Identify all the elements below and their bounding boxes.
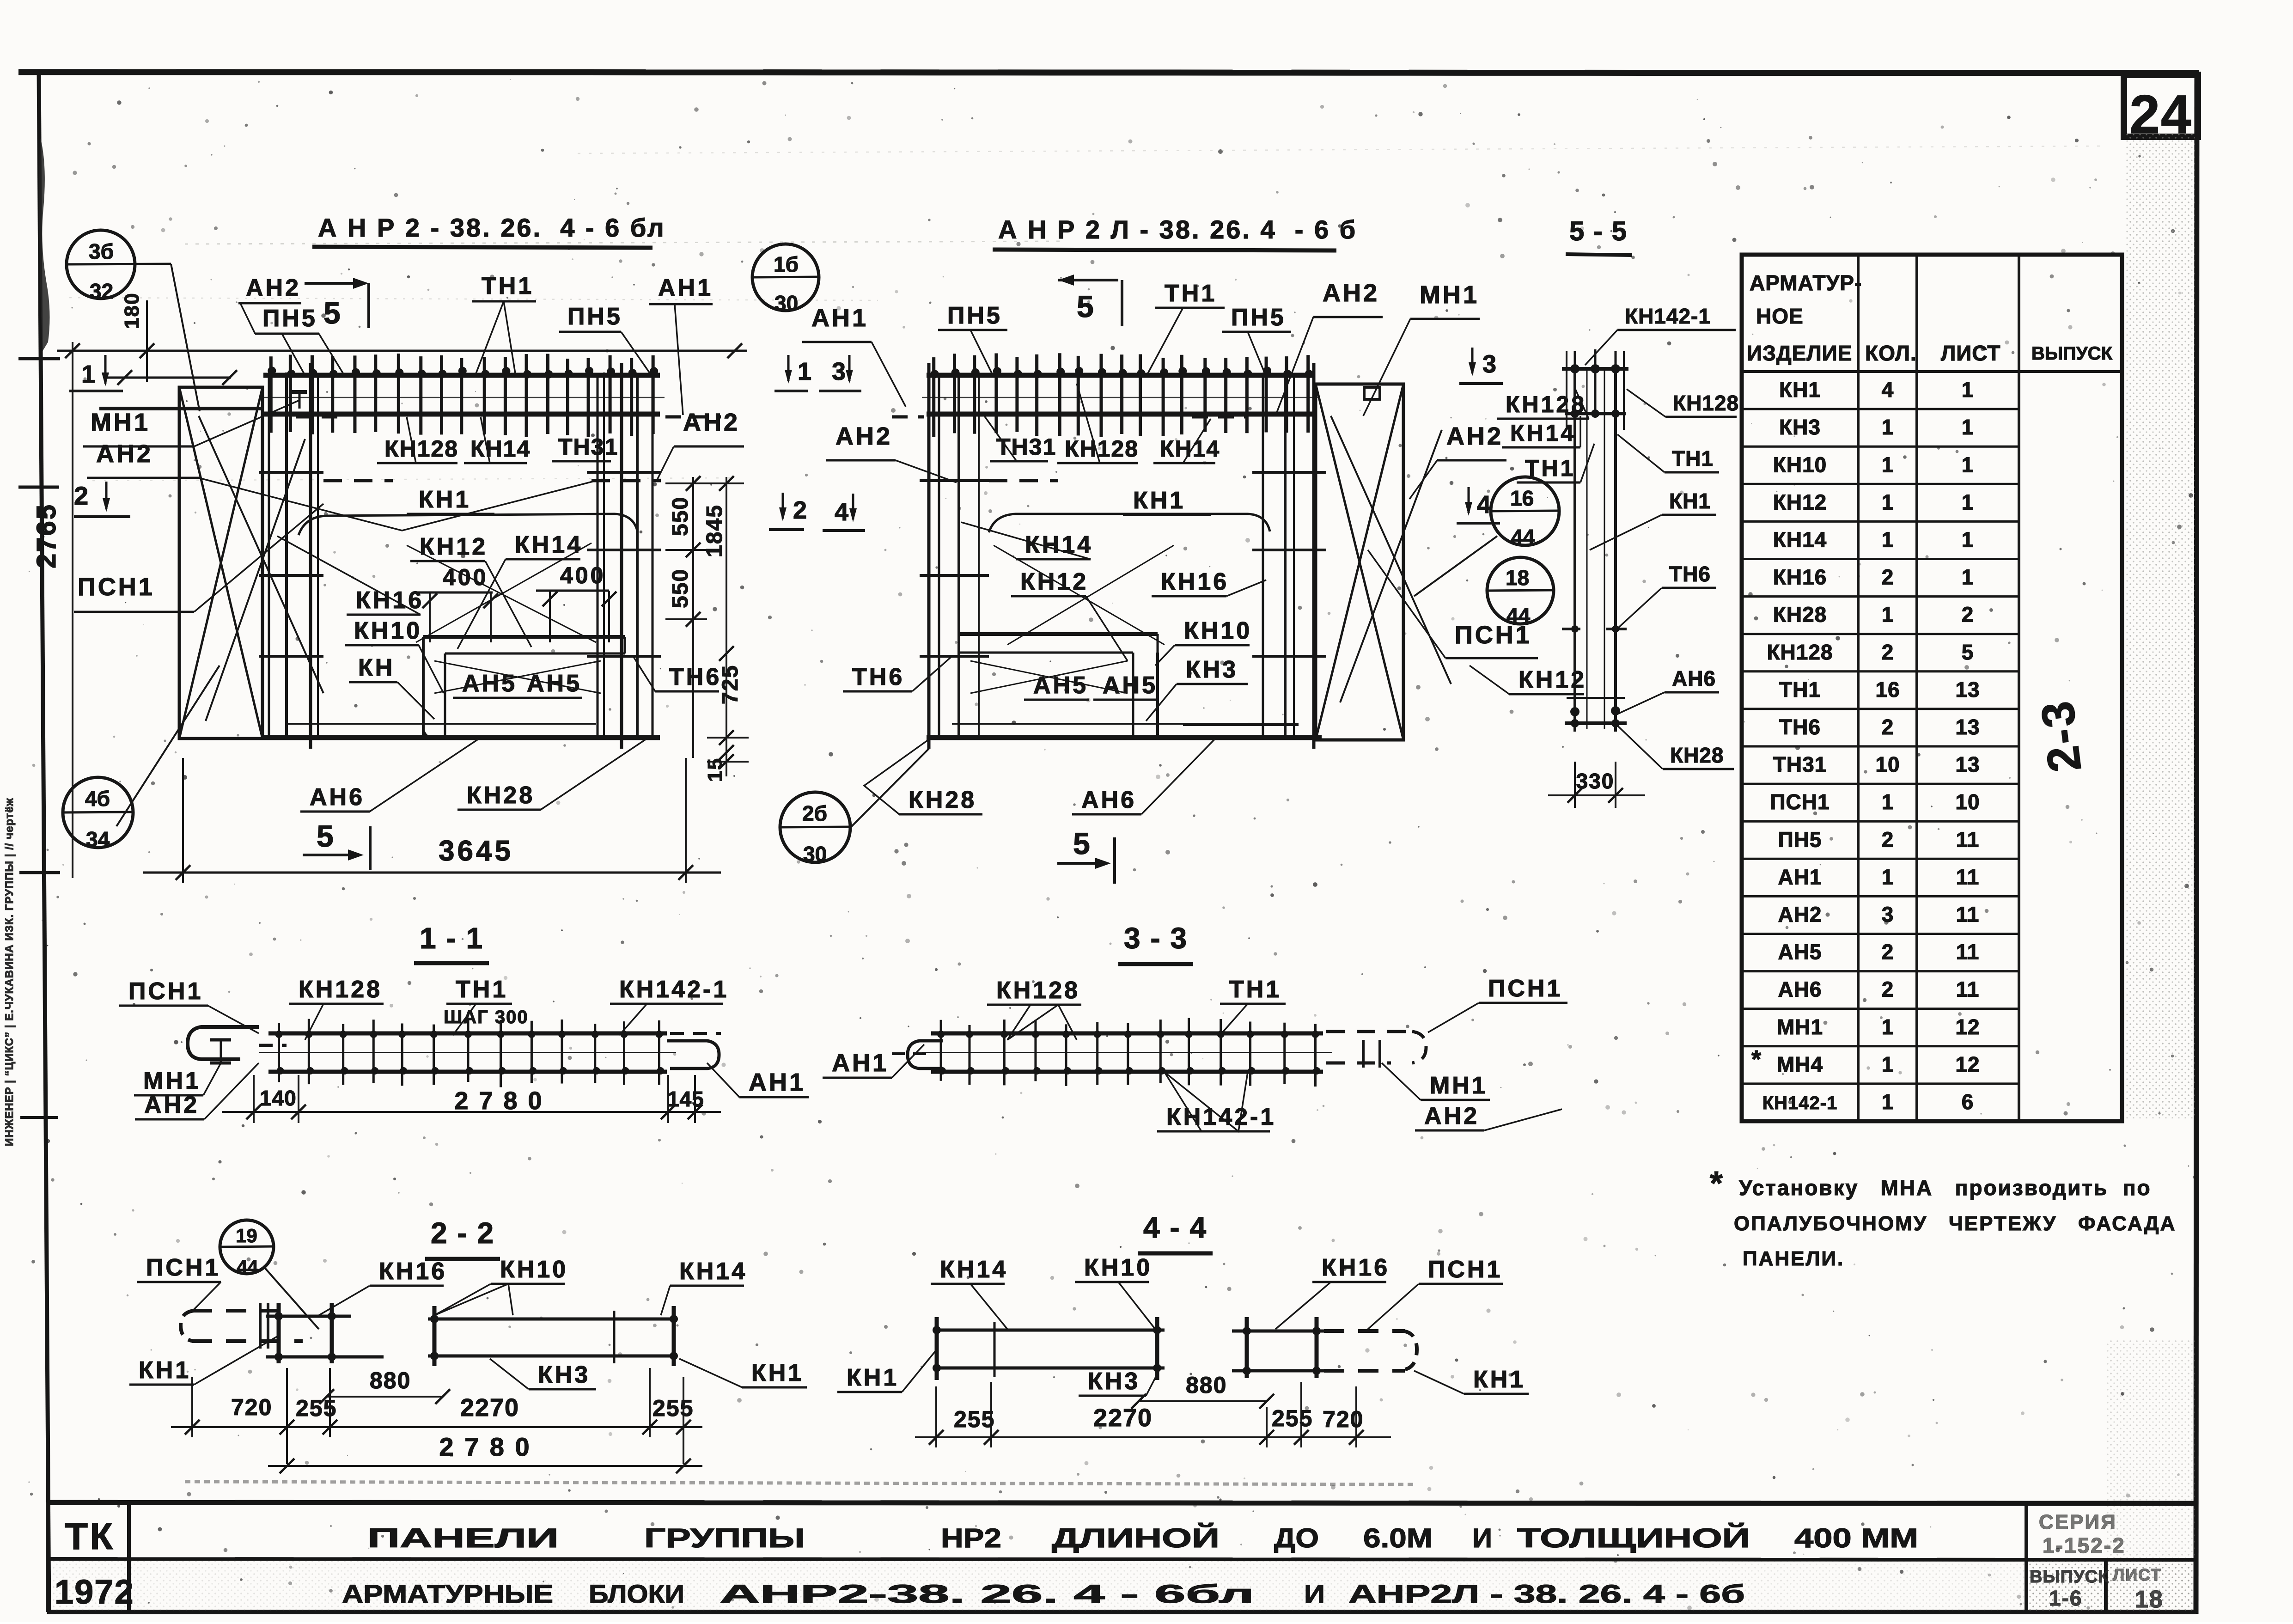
svg-text:ТН6: ТН6: [852, 664, 904, 690]
label АН1: [823, 1044, 924, 1078]
svg-text:ТН1: ТН1: [1525, 455, 1575, 481]
svg-text:А Н Р 2 Л - 38. 26. 4 - 6 б: А Н Р 2 Л - 38. 26. 4 - 6 б: [998, 215, 1357, 244]
svg-text:АН2: АН2: [144, 1092, 199, 1118]
svg-text:ИНЖЕНЕР | “ЦИКС” | Е.ЧУКАВИНА: ИНЖЕНЕР | “ЦИКС” | Е.ЧУКАВИНА ИЗК. ГРУПП…: [3, 798, 16, 1146]
svg-text:1: 1: [1962, 490, 1974, 514]
svg-text:АН5: АН5: [1033, 672, 1088, 699]
svg-text:1: 1: [1962, 528, 1974, 552]
section marker 5 top (drawing 2): [1058, 275, 1122, 326]
svg-text:ТОЛЩИНОЙ: ТОЛЩИНОЙ: [1517, 1523, 1750, 1553]
section marker 5 bottom (drawing 1): [303, 819, 370, 870]
section marker 2 (left): [74, 481, 130, 517]
svg-text:КН142-1: КН142-1: [1625, 304, 1711, 328]
svg-text:2270: 2270: [460, 1394, 519, 1422]
svg-text:АРМАТУРНЫЕ: АРМАТУРНЫЕ: [342, 1579, 553, 1608]
label АН1: [802, 304, 906, 407]
svg-text:2б: 2б: [802, 801, 827, 825]
svg-text:2270: 2270: [1093, 1404, 1153, 1432]
label КН1: [679, 1359, 807, 1387]
svg-text:330: 330: [1576, 769, 1615, 793]
section 3-3 right hook dashed: [1326, 1032, 1426, 1068]
svg-text:КН128: КН128: [384, 436, 458, 462]
label КН1: [407, 486, 494, 514]
section 2-2 dashed hook ПСН1: [181, 1303, 303, 1349]
border bottom line: [48, 1610, 2196, 1614]
svg-text:44: 44: [237, 1256, 258, 1278]
svg-text:3б: 3б: [89, 239, 114, 263]
svg-text:КН10: КН10: [1184, 617, 1252, 644]
svg-text:АН1: АН1: [832, 1049, 889, 1077]
svg-text:АН1: АН1: [1778, 865, 1822, 889]
svg-text:2: 2: [1882, 977, 1894, 1001]
label АН6: [300, 738, 481, 812]
svg-text:КН3: КН3: [1088, 1368, 1140, 1395]
svg-text:18: 18: [1506, 566, 1529, 590]
svg-text:КН12: КН12: [1020, 568, 1088, 595]
svg-text:КН10: КН10: [354, 617, 422, 644]
svg-text:КН16: КН16: [1773, 565, 1827, 589]
label КН128: [289, 976, 384, 1040]
svg-text:ПН5: ПН5: [262, 305, 317, 332]
svg-text:МН1: МН1: [91, 409, 150, 436]
section 4-4 dims: [915, 1372, 1391, 1447]
svg-text:КН12: КН12: [1773, 490, 1827, 514]
svg-text:КН10: КН10: [500, 1256, 568, 1283]
label КН128: [377, 417, 458, 463]
svg-text:2: 2: [74, 481, 88, 510]
svg-text:4б: 4б: [85, 787, 110, 811]
dashed anchor lines (drawing 2): [892, 417, 1248, 481]
drawing 1 right cage vertical bars: [587, 363, 661, 749]
marker circle 16/44: [1414, 477, 1559, 596]
svg-text:МН4: МН4: [1777, 1052, 1823, 1076]
section marker 5 bottom (drawing 2): [1057, 826, 1115, 884]
label ПН5: [938, 302, 1007, 377]
svg-text:13: 13: [1955, 715, 1980, 739]
leader ТН1 second: [504, 301, 515, 373]
label АН6: [1072, 739, 1215, 814]
section 1-1 right hook: [667, 1041, 719, 1068]
svg-text:2: 2: [1882, 827, 1894, 851]
svg-text:И: И: [1304, 1579, 1325, 1608]
label ТН1: [472, 273, 536, 373]
svg-text:1б: 1б: [774, 252, 799, 276]
label КН14: [661, 1258, 747, 1315]
label ПН5: [559, 303, 651, 374]
svg-text:КН142-1: КН142-1: [1762, 1093, 1838, 1113]
svg-text:2-3: 2-3: [2031, 697, 2091, 775]
svg-text:ТН1: ТН1: [456, 976, 508, 1003]
svg-text:4: 4: [1477, 491, 1491, 519]
svg-text:КН14: КН14: [679, 1258, 747, 1285]
svg-text:КОЛ.: КОЛ.: [1865, 341, 1917, 365]
label МН1: [134, 1063, 221, 1095]
panel blank zone rectangle (ПСН1) with X brace: [179, 387, 323, 739]
svg-text:ПСН1: ПСН1: [1428, 1256, 1502, 1283]
drawing 2 left cage vertical bars: [920, 363, 989, 749]
drawing 2 top mesh ТН1: [922, 353, 1319, 437]
svg-text:АН2: АН2: [246, 275, 301, 301]
svg-text:МН1: МН1: [1430, 1072, 1488, 1099]
section marker 4 right: [1457, 487, 1500, 523]
drawing 2 title АНР2Л-38.26.4-6б: [993, 215, 1357, 250]
label КН14: [961, 522, 1093, 559]
svg-text:11: 11: [1956, 977, 1980, 1001]
svg-text:КН1: КН1: [751, 1360, 804, 1386]
svg-text:ОПАЛУБОЧНОМУ ЧЕРТЕЖУ ФАСАД: ОПАЛУБОЧНОМУ ЧЕРТЕЖУ ФАСАДА: [1734, 1212, 2176, 1235]
section 5-5 heading: [1566, 216, 1632, 255]
svg-text:ТН6: ТН6: [1669, 562, 1711, 586]
svg-text:550: 550: [668, 568, 693, 608]
svg-text:ПН5: ПН5: [947, 302, 1002, 329]
drawing 2 bottom chord: [927, 724, 1322, 738]
svg-text:ВЫПУСК: ВЫПУСК: [2031, 343, 2113, 364]
svg-text:КН128: КН128: [299, 976, 382, 1003]
svg-text:255: 255: [296, 1395, 337, 1421]
svg-text:АН1: АН1: [658, 275, 713, 301]
label ТН1: [1146, 280, 1225, 377]
svg-text:МН1: МН1: [1420, 281, 1479, 309]
svg-text:КН14: КН14: [940, 1256, 1008, 1283]
svg-text:180: 180: [121, 293, 143, 329]
svg-text:АН5: АН5: [1778, 940, 1822, 964]
svg-text:КН14: КН14: [1025, 531, 1093, 558]
svg-text:ТН31: ТН31: [1773, 752, 1827, 776]
svg-text:КН128: КН128: [1767, 640, 1833, 664]
svg-text:АН1: АН1: [749, 1068, 805, 1096]
label КН1: [1123, 487, 1211, 515]
svg-text:3 - 3: 3 - 3: [1124, 922, 1188, 955]
svg-text:КН14: КН14: [470, 436, 531, 462]
svg-text:1: 1: [1882, 1052, 1894, 1076]
drawing 1 top dimension line: [57, 342, 747, 878]
label КН10: [1075, 1254, 1155, 1329]
svg-text:13: 13: [1955, 752, 1980, 776]
svg-text:5: 5: [1962, 640, 1974, 664]
svg-text:44: 44: [1511, 525, 1535, 549]
svg-text:КН28: КН28: [909, 787, 976, 813]
dim 330 (section 5-5): [1548, 762, 1645, 808]
svg-text:ПСН1: ПСН1: [146, 1254, 220, 1281]
label АН5: [518, 670, 582, 698]
svg-text:КН142-1: КН142-1: [619, 976, 729, 1003]
marker circle 2б/30: [780, 749, 929, 866]
svg-text:КН1: КН1: [139, 1357, 191, 1384]
svg-text:18: 18: [2135, 1586, 2164, 1613]
svg-text:1: 1: [1882, 490, 1894, 514]
label КН142-1: [610, 976, 729, 1035]
svg-text:ПАНЕЛИ: ПАНЕЛИ: [367, 1523, 559, 1553]
svg-text:ПСН1: ПСН1: [1770, 790, 1830, 814]
dashed anchor lines МН1: [296, 417, 721, 481]
svg-text:725: 725: [718, 665, 743, 704]
marker circle 3б/32: [67, 230, 171, 303]
svg-text:КН3: КН3: [1779, 415, 1821, 439]
svg-text:*: *: [1751, 1045, 1761, 1073]
label КН16: [1275, 1254, 1390, 1329]
svg-text:Установку МНА производить: Установку МНА производить по: [1739, 1176, 2152, 1200]
label КН14: [457, 531, 583, 649]
svg-text:АН6: АН6: [1778, 977, 1822, 1001]
label КН10: [345, 617, 444, 693]
svg-text:КН1: КН1: [1133, 487, 1185, 514]
label КН28: [1617, 726, 1734, 769]
svg-text:1: 1: [1882, 1090, 1894, 1114]
svg-text:16: 16: [1875, 678, 1900, 702]
svg-text:1: 1: [1882, 865, 1894, 889]
svg-text:КН16: КН16: [1161, 568, 1229, 595]
label КН10: [1155, 617, 1252, 665]
svg-text:АН1: АН1: [811, 304, 868, 332]
border left line: [39, 69, 49, 1614]
svg-text:КН14: КН14: [1510, 420, 1576, 446]
svg-text:КН3: КН3: [1186, 656, 1238, 683]
svg-text:*: *: [1710, 1165, 1723, 1202]
svg-text:1845: 1845: [702, 504, 727, 557]
label КН142-1: [1157, 1072, 1276, 1131]
label КН128: [1057, 384, 1139, 463]
svg-text:3: 3: [832, 358, 846, 385]
label ПСН1: [1368, 1256, 1503, 1329]
svg-text:11: 11: [1956, 903, 1980, 927]
section 4-4 dashed hook ПСН1: [1324, 1331, 1417, 1371]
label КН14: [1153, 419, 1220, 463]
svg-text:АН2: АН2: [835, 422, 892, 450]
label ПСН1: [1368, 550, 1538, 658]
label АН1: [707, 1063, 809, 1097]
small notch on top of right rectangle: [1364, 387, 1380, 399]
label КН12: [1011, 568, 1128, 661]
svg-text:1: 1: [1882, 1015, 1894, 1039]
svg-text:2765: 2765: [31, 503, 61, 568]
svg-text:44: 44: [1506, 604, 1531, 628]
label КН12: [410, 533, 531, 647]
svg-text:КН12: КН12: [420, 533, 488, 560]
svg-text:4: 4: [1882, 378, 1894, 402]
section marker 5 top (drawing 1): [305, 278, 369, 330]
svg-text:КН16: КН16: [379, 1258, 447, 1285]
section 1-1 heading: [414, 922, 489, 963]
svg-text:2: 2: [1882, 715, 1894, 739]
section 3-3 left hook: [908, 1041, 943, 1068]
svg-text:ГРУППЫ: ГРУППЫ: [644, 1523, 805, 1553]
svg-text:КН28: КН28: [467, 782, 535, 809]
svg-text:10: 10: [1875, 752, 1900, 776]
svg-text:5: 5: [323, 296, 341, 330]
section 1-1 right dashed: [670, 1032, 721, 1035]
scan smudge streak above title block: [185, 1482, 1414, 1484]
section 2-2 dim line 2 (2780): [268, 1432, 702, 1473]
label КН14: [464, 417, 531, 463]
svg-text:2: 2: [1962, 603, 1974, 627]
leader trapezoid ПН5: [319, 334, 344, 375]
section 3-3 rebar band: [922, 1018, 1332, 1087]
svg-text:АН5: АН5: [1103, 672, 1158, 699]
svg-text:2: 2: [1882, 640, 1894, 664]
section 1-1 left hook ПСН1: [188, 1027, 259, 1059]
svg-text:255: 255: [1272, 1405, 1313, 1431]
svg-text:5: 5: [317, 819, 334, 853]
svg-text:255: 255: [954, 1406, 995, 1432]
svg-text:3: 3: [1482, 350, 1496, 378]
drawing 1 bottom dimension line 3645: [143, 758, 721, 883]
label КН1: [1590, 489, 1716, 550]
label КН16: [319, 1258, 447, 1315]
svg-text:ПСН1: ПСН1: [128, 978, 203, 1005]
window opening bars (drawing 1): [423, 637, 625, 739]
svg-text:КН1: КН1: [847, 1364, 899, 1391]
label АН2: [656, 409, 744, 482]
svg-text:АН2: АН2: [96, 440, 153, 468]
svg-text:АН2: АН2: [683, 409, 740, 436]
label АН2: [1409, 422, 1506, 499]
svg-text:ТН1: ТН1: [1672, 446, 1714, 470]
svg-text:16: 16: [1510, 486, 1534, 510]
series box vertical line: [2025, 1502, 2028, 1612]
section 2-2 small box КН16: [266, 1303, 384, 1363]
label КН10: [434, 1256, 568, 1315]
section marker 3 right: [1459, 348, 1503, 384]
label КН128: [1627, 389, 1739, 417]
section 4-4 heading: [1138, 1211, 1213, 1253]
label АН6: [1617, 666, 1719, 714]
dim ticks 400: [422, 591, 616, 642]
svg-text:КН12: КН12: [1519, 666, 1586, 693]
svg-text:1: 1: [1882, 528, 1894, 552]
table rows text: [1762, 378, 1980, 1114]
svg-text:ЛИСТ: ЛИСТ: [1941, 341, 2001, 365]
label КН28 drawing 2: [864, 739, 982, 814]
label КН12: [1470, 665, 1586, 694]
svg-text:34: 34: [86, 827, 110, 851]
svg-text:140: 140: [260, 1086, 297, 1110]
svg-text:СЕРИЯ: СЕРИЯ: [2039, 1511, 2117, 1533]
label 400: [536, 562, 609, 591]
svg-text:2 7 8 0: 2 7 8 0: [439, 1432, 531, 1461]
label АН2: [1415, 1103, 1562, 1130]
svg-text:1: 1: [1882, 603, 1894, 627]
label КН14: [931, 1256, 1008, 1329]
drawing 2 right cage vertical bars: [1252, 363, 1326, 749]
border right line: [2196, 73, 2197, 1614]
label ТН1: [1617, 434, 1719, 472]
label 400: [416, 564, 493, 592]
label ТН6: [633, 656, 721, 691]
table row lines: [1742, 409, 2019, 1084]
svg-text:КН128: КН128: [996, 977, 1080, 1004]
drawing 1 bottom chord: [262, 724, 660, 738]
svg-text:АНР2Л - 38. 26. 4 - 6б: АНР2Л - 38. 26. 4 - 6б: [1348, 1579, 1745, 1608]
svg-text:4: 4: [835, 498, 848, 526]
svg-text:ИЗДЕЛИЕ: ИЗДЕЛИЕ: [1747, 341, 1852, 365]
svg-text:32: 32: [90, 279, 113, 303]
svg-text:880: 880: [1186, 1372, 1227, 1398]
svg-text:5 - 5: 5 - 5: [1569, 216, 1628, 246]
svg-text:АН2: АН2: [1778, 903, 1822, 927]
label АН1: [649, 275, 713, 415]
label КН128 left of 5-5: [1497, 388, 1589, 419]
svg-text:550: 550: [668, 496, 693, 536]
section 4-4 small box КН16: [1232, 1317, 1333, 1378]
svg-text:1-152-2: 1-152-2: [2043, 1533, 2126, 1557]
label АН5: [1024, 672, 1089, 700]
svg-text:ВЫПУСК: ВЫПУСК: [2030, 1567, 2109, 1587]
label АН2: [826, 422, 957, 482]
svg-text:2: 2: [1882, 940, 1894, 964]
svg-text:КН14: КН14: [1160, 436, 1220, 462]
svg-text:ТК: ТК: [65, 1515, 115, 1557]
table column lines: [1858, 255, 2019, 1121]
svg-text:2 7 8 0: 2 7 8 0: [454, 1087, 543, 1115]
svg-text:1972: 1972: [55, 1573, 134, 1611]
svg-text:ШАГ 300: ШАГ 300: [444, 1007, 529, 1027]
label ТН31: [984, 416, 1056, 461]
section 2-2 dims: [231, 1368, 694, 1422]
label КН128: [987, 977, 1081, 1040]
section 2-2 heading: [425, 1216, 500, 1259]
panel blank zone rectangle right (drawing 2) with X brace: [1316, 384, 1451, 740]
svg-text:ПН5: ПН5: [1778, 827, 1822, 851]
svg-text:АН2: АН2: [1446, 422, 1503, 450]
label ТН6: [1617, 562, 1716, 629]
leader to circle 4б/34: [116, 665, 220, 826]
svg-text:АН6: АН6: [310, 784, 365, 811]
svg-text:1 - 1: 1 - 1: [420, 922, 483, 955]
label ПСН1: [1428, 975, 1567, 1032]
svg-text:И: И: [1472, 1523, 1492, 1553]
left margin tick marks: [18, 359, 60, 1117]
label КН28: [457, 739, 647, 810]
svg-text:2 - 2: 2 - 2: [431, 1216, 494, 1250]
svg-text:2: 2: [1882, 565, 1894, 589]
section markers 2 4 (between drawings): [769, 493, 865, 531]
svg-text:КН: КН: [358, 654, 395, 681]
label ТН1 left of 5-5: [1517, 444, 1594, 482]
label КН: [349, 654, 434, 719]
svg-text:АН5: АН5: [462, 670, 517, 697]
horizontal bar КН1 (drawing 2): [989, 514, 1270, 532]
svg-text:КН3: КН3: [538, 1361, 590, 1388]
label АН2: [238, 275, 301, 303]
svg-text:ЛИСТ: ЛИСТ: [2113, 1565, 2162, 1584]
svg-text:1-6: 1-6: [2049, 1586, 2082, 1610]
label КН14 left of 5-5: [1502, 416, 1580, 447]
svg-text:ТН31: ТН31: [558, 434, 618, 460]
svg-text:АН5: АН5: [527, 670, 582, 697]
svg-text:1: 1: [81, 360, 95, 388]
label ПСН1: [137, 1254, 221, 1312]
svg-text:3645: 3645: [439, 835, 513, 867]
svg-text:12: 12: [1955, 1015, 1980, 1039]
label КН1 left of 4-4: [837, 1349, 937, 1392]
section 5-5 bottom box: [1565, 698, 1627, 727]
svg-text:11: 11: [1956, 827, 1980, 851]
dim 725 / 15: [704, 646, 749, 782]
parts table frame: [1742, 255, 2122, 1121]
horizontal bar КН1: [299, 514, 638, 535]
svg-text:19: 19: [236, 1225, 257, 1246]
svg-text:КН128: КН128: [1506, 391, 1586, 417]
svg-text:КН1: КН1: [1473, 1366, 1525, 1393]
label КН1: [129, 1336, 279, 1385]
label МН1: [1382, 1063, 1490, 1100]
svg-text:КН128: КН128: [1673, 391, 1739, 415]
left extension bar: [99, 407, 262, 410]
label МН1: [1363, 281, 1480, 416]
svg-text:КН128: КН128: [1065, 436, 1139, 462]
label ТН1: [446, 976, 512, 1035]
section 5-5 top box: [1562, 349, 1628, 430]
